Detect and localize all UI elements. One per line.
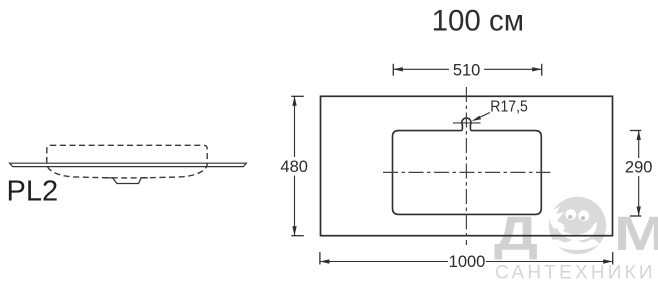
dimension 510 right tick (541, 64, 543, 76)
dimension 290 bottom arrow (637, 207, 641, 217)
svg-text:480: 480 (280, 158, 308, 176)
dimension 1000 left arrow (320, 259, 330, 263)
dimension 480 line (294, 96, 296, 235)
side view drain trap (106, 178, 148, 184)
svg-text:510: 510 (453, 61, 481, 79)
svg-text:САНТЕХНИКИ: САНТЕХНИКИ (495, 263, 656, 281)
side view basin hidden outline (dashed) (47, 145, 207, 178)
countertop outer rectangle (321, 96, 613, 235)
svg-text:100 см: 100 см (432, 4, 524, 37)
watermark letter М (614, 208, 658, 261)
watermark letter Д (494, 208, 538, 261)
radius leader line (474, 113, 490, 121)
dimension 510 left arrow (393, 67, 403, 71)
radius label R17,5 (490, 98, 528, 115)
svg-text:290: 290 (625, 158, 653, 176)
dimension 290 bottom tick (630, 215, 641, 217)
basin cutout with tap-hole notch (393, 118, 542, 214)
dimension 290 top tick (630, 130, 641, 132)
title 100 cm (432, 4, 524, 37)
dimension 1000 right tick (612, 252, 614, 264)
dimension 510 right arrow (532, 67, 542, 71)
svg-text:Д: Д (494, 208, 538, 261)
dimension 290 line (638, 131, 640, 217)
svg-text:PL2: PL2 (7, 176, 59, 208)
dimension 1000 right arrow (603, 259, 613, 263)
dimension 480 bottom arrow (292, 226, 296, 236)
vertical centerline (465, 87, 467, 245)
dimension 1000 text (449, 253, 486, 271)
dimension 510 text (453, 61, 481, 79)
svg-text:R17,5: R17,5 (490, 98, 528, 115)
dimension 290 top arrow (637, 131, 641, 141)
tap hole cross line (453, 122, 481, 124)
dimension 480 text (280, 158, 308, 176)
label PL2 (7, 176, 59, 208)
dimension 510 line (393, 68, 541, 70)
dimension 1000 line (320, 261, 613, 263)
radius leader arrow (472, 116, 481, 122)
dimension 510 left tick (392, 64, 394, 76)
dimension 480 top tick (291, 95, 304, 97)
watermark text САНТЕХНИКИ (495, 263, 656, 281)
dimension 1000 left tick (319, 252, 321, 264)
svg-text:1000: 1000 (449, 253, 486, 271)
dimension 480 bottom tick (291, 235, 304, 237)
dimension 290 text (625, 158, 653, 176)
horizontal centerline (383, 171, 550, 173)
side view countertop slab (10, 163, 247, 166)
dimension 480 top arrow (292, 96, 296, 106)
watermark emblem disc (549, 197, 606, 254)
